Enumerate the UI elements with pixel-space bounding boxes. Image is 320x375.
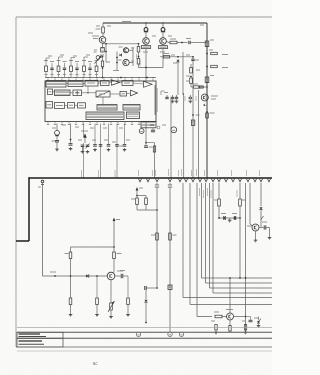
- terminal circle 3: [179, 332, 183, 336]
- wire hook a: [46, 58, 50, 62]
- wire IC internal: [53, 83, 144, 106]
- transistor Q104: [142, 32, 151, 49]
- resistor C201: [44, 61, 48, 78]
- wire pin net x117: [115, 124, 117, 179]
- wire collector link: [129, 47, 133, 66]
- resistor R114: [206, 111, 215, 118]
- varactor D103: [113, 52, 122, 71]
- block BC stage: [68, 103, 75, 109]
- capacitor C219: [123, 124, 127, 152]
- test point TP1: [139, 129, 144, 134]
- ground C304: [268, 228, 272, 240]
- block band buffer 1-5: [96, 91, 110, 97]
- resistor R303: [151, 233, 158, 240]
- ground mid rail: [228, 219, 232, 223]
- resistor R101: [96, 23, 105, 36]
- capacitor R202: [63, 62, 67, 78]
- IC footer box: [141, 122, 156, 128]
- transistor Q103: [118, 59, 141, 66]
- block bus interface control: [86, 112, 124, 120]
- resistor R306: [239, 183, 246, 218]
- wire net to lower section A: [168, 169, 170, 176]
- wire base feed: [137, 209, 158, 211]
- diode D105: [94, 52, 103, 64]
- block divider chain: [55, 103, 65, 109]
- transistor Q302: [247, 183, 259, 231]
- diode D301: [144, 290, 147, 323]
- supply +V arrow: [81, 131, 88, 143]
- terminal circle 1: [136, 332, 140, 336]
- block output latch: [127, 112, 140, 119]
- wire net column x245: [234, 183, 247, 332]
- resistor R105: [137, 59, 140, 68]
- wire net to lower section D: [197, 90, 199, 178]
- resistor R112: [206, 65, 228, 67]
- capacitor C301: [145, 286, 158, 290]
- wire net L staircase: [211, 183, 272, 293]
- resistor R316: [229, 326, 231, 333]
- wire net to lower section C: [182, 93, 184, 178]
- resistor R315: [242, 321, 247, 334]
- wire net I staircase: [200, 183, 273, 278]
- wire bus line 4 frame bottom: [16, 346, 272, 348]
- resistor R108: [190, 64, 193, 77]
- resistor R304: [169, 233, 177, 240]
- block tuning detector: [68, 81, 83, 87]
- resistor R302: [145, 196, 148, 211]
- resistor R109: [190, 78, 193, 87]
- wire emitter Q303: [229, 320, 231, 326]
- capacitor C119: [192, 64, 199, 178]
- op-amp A1 triangle: [112, 80, 120, 85]
- wire net K staircase: [208, 183, 273, 288]
- wire hook c: [71, 58, 75, 63]
- wire emitter Q104: [145, 49, 147, 79]
- pin numbers bottom row: [47, 122, 140, 125]
- diode D104: [177, 60, 180, 95]
- block double limit threshold: [46, 81, 66, 88]
- wire emitter Q101: [103, 42, 140, 45]
- crystal X104: [101, 44, 105, 57]
- capacitor C216: [99, 145, 103, 147]
- capacitor C303: [232, 214, 237, 221]
- capacitor C211: [52, 136, 60, 151]
- block demod: [85, 80, 98, 86]
- capacitor C217: [115, 145, 123, 147]
- wire net J staircase: [204, 183, 273, 283]
- transistor Q303: [226, 310, 234, 321]
- diode D304: [257, 317, 261, 328]
- capacitor C304: [259, 222, 270, 230]
- capacitor R203: [75, 62, 79, 78]
- capacitor R204: [88, 62, 92, 78]
- svg-text:5c: 5c: [93, 361, 97, 366]
- wire bus line 3: [17, 337, 272, 339]
- capacitor C120: [151, 128, 155, 132]
- resistor R104 column: [137, 43, 140, 59]
- diode D303: [86, 274, 89, 277]
- wire net E down: [168, 183, 172, 332]
- block rectifier B: [123, 105, 140, 111]
- wire vertical net: [182, 52, 184, 95]
- wire hook d: [84, 57, 88, 62]
- wire emitter Q302 gnd: [254, 231, 258, 242]
- op-amp A2 triangle: [144, 81, 153, 87]
- block mixer: [122, 81, 133, 86]
- supply arrow +V node B: [136, 187, 146, 196]
- wire left feed box: [16, 177, 29, 241]
- title box lower: [17, 338, 63, 347]
- trimmer C214: [86, 144, 90, 154]
- title box upper: [17, 332, 63, 338]
- wire hook net e: [161, 91, 165, 95]
- capacitor C305: [115, 271, 128, 279]
- resistor R113: [199, 86, 204, 88]
- resistor R115: [101, 57, 103, 78]
- capacitor C121: [144, 143, 148, 148]
- resistor C204: [82, 61, 86, 78]
- crystal X101: [205, 41, 209, 47]
- wire pin net x100: [99, 124, 101, 179]
- resistor R107: [163, 54, 170, 59]
- box M301: [168, 285, 172, 290]
- wire bus line 1: [17, 327, 272, 329]
- wire bus line 2: [17, 331, 272, 333]
- resistor R310: [95, 275, 99, 316]
- capacitor C306: [246, 317, 260, 322]
- block latch small: [120, 92, 127, 97]
- page number 5c: [93, 361, 97, 366]
- capacitor C115: [164, 93, 169, 99]
- wire net R305 down: [237, 190, 241, 279]
- wire net F staircase: [183, 183, 272, 298]
- resistor R312: [126, 276, 130, 317]
- wire net H to Q301: [197, 183, 212, 317]
- wire pin net x83: [82, 124, 84, 179]
- block PLL: [55, 90, 71, 96]
- wire decoupling rail: [218, 217, 241, 219]
- op-amp A3 triangle: [131, 90, 138, 96]
- capacitor C215: [93, 124, 97, 152]
- wire emitter Q105: [139, 49, 164, 69]
- resistor R309: [69, 276, 73, 317]
- terminal tick: [157, 126, 160, 129]
- connector pin arrows row: [139, 179, 271, 182]
- wire collector net Q301b: [229, 277, 231, 313]
- transistor Q102: [119, 47, 137, 59]
- block crystal osc: [46, 102, 53, 109]
- connector pin labels: [139, 170, 260, 176]
- label net names: [185, 96, 196, 101]
- capacitor C116: [171, 95, 175, 103]
- capacitor C218: [107, 124, 111, 152]
- wire net D down: [155, 183, 159, 288]
- wire supply branch: [71, 246, 115, 248]
- transistor Q301 lower left: [107, 271, 123, 280]
- capacitor C212: [69, 124, 73, 151]
- block latch2: [78, 103, 86, 108]
- supply arrow +V node C: [113, 218, 120, 248]
- crystal X102: [205, 77, 209, 83]
- resistor C203: [69, 61, 73, 78]
- capacitor C117: [175, 95, 179, 103]
- resistor R313: [214, 312, 227, 318]
- wire net G staircase: [190, 183, 272, 305]
- resistor R307: [65, 247, 72, 276]
- block phase comp: [73, 90, 82, 96]
- capacitor C118: [189, 95, 193, 103]
- capacitor R201: [50, 62, 54, 78]
- resistor R301: [131, 196, 138, 211]
- transistor Q105: [159, 32, 168, 49]
- diode D302: [259, 183, 263, 227]
- resistor R314: [211, 321, 218, 334]
- wire net to lower section B: [170, 97, 172, 178]
- label specks top area: [48, 25, 214, 142]
- capacitor C213: [81, 145, 85, 153]
- capacitor C210 electrolytic: [52, 124, 59, 136]
- wire hook b: [59, 57, 64, 62]
- wire bus line 5: [17, 350, 272, 352]
- resistor C202: [57, 61, 61, 78]
- pin numbers top row: [47, 78, 154, 82]
- transistor Q101: [92, 36, 106, 43]
- terminal circle 2: [168, 332, 172, 336]
- capacitor C107: [191, 57, 199, 64]
- wire pin header rail: [45, 77, 156, 79]
- potentiometer R311: [108, 280, 115, 319]
- wire branch node: [105, 43, 110, 62]
- wire net x146 to divider: [145, 122, 154, 178]
- wire mid row: [160, 56, 194, 58]
- block N divider: [48, 89, 53, 95]
- wire right bus: [206, 23, 208, 178]
- resistor R305: [214, 183, 220, 218]
- antenna input connector: [38, 180, 44, 276]
- wire lower board top edge: [29, 177, 272, 179]
- resistor R110: [193, 84, 208, 88]
- block band select 1-5: [101, 81, 110, 86]
- diode D101: [144, 22, 148, 32]
- test point TP2: [171, 127, 177, 133]
- block rectifier A: [97, 105, 117, 111]
- op-amp U101 main IC outline: [45, 81, 156, 122]
- diode D102: [161, 22, 165, 32]
- resistor R111: [206, 50, 228, 55]
- wire main supply rail: [103, 22, 207, 24]
- resistor C205: [95, 61, 99, 78]
- transistor Q106: [201, 94, 218, 106]
- resistor R106: [166, 39, 177, 44]
- capacitor C302: [221, 214, 226, 221]
- resistor R118: [149, 146, 156, 152]
- label IC part number vertical: [155, 85, 157, 115]
- resistor R308: [113, 247, 122, 273]
- crystal X103: [191, 120, 194, 125]
- wire audio rail: [43, 272, 108, 277]
- capacitor C106: [177, 39, 207, 45]
- page border frame: [16, 17, 272, 347]
